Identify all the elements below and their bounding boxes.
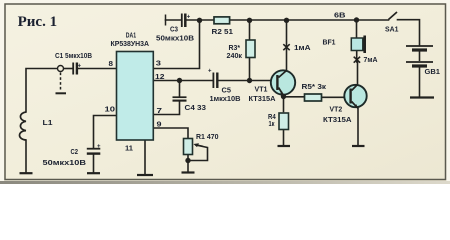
wire C4 bottom to pin7 bbox=[154, 102, 180, 115]
svg-text:11: 11 bbox=[125, 143, 133, 152]
svg-text:8: 8 bbox=[109, 59, 114, 68]
svg-text:С1 5мкх10В: С1 5мкх10В bbox=[55, 51, 92, 60]
transistor VT1 bbox=[271, 70, 295, 96]
resistor R3 bbox=[246, 40, 255, 58]
wire L1 to ground bbox=[25, 140, 27, 173]
wire top bus C3 left lead bbox=[166, 19, 182, 21]
svg-text:+: + bbox=[208, 68, 212, 74]
svg-text:6В: 6В bbox=[334, 11, 346, 20]
label SA1 bbox=[385, 25, 399, 34]
wire C3 to R2 bbox=[187, 19, 215, 21]
current mark 7mA bbox=[354, 57, 360, 63]
border frame bbox=[5, 4, 446, 180]
svg-text:50мкх10В: 50мкх10В bbox=[43, 158, 87, 167]
caption Рис. 1 bbox=[18, 14, 58, 30]
wire node to L1 bbox=[26, 69, 58, 113]
svg-text:КТ315А: КТ315А bbox=[323, 115, 352, 124]
ground R1 bbox=[182, 171, 195, 173]
svg-text:R2 51: R2 51 bbox=[212, 27, 234, 36]
wire pin12 run left bbox=[154, 80, 214, 82]
label pin7 bbox=[157, 106, 163, 115]
photo outer margin bbox=[0, 0, 450, 181]
junction node R3 top bbox=[247, 18, 252, 23]
label R1 bbox=[196, 132, 219, 141]
label C5 bbox=[222, 86, 232, 95]
junction node C4 bbox=[177, 78, 182, 83]
svg-text:9: 9 bbox=[157, 120, 162, 129]
resistor R1 (trimmer) bbox=[184, 139, 204, 155]
label R4 bbox=[268, 112, 276, 121]
wire R2 to SA1 bbox=[230, 19, 389, 21]
label pin11 bbox=[125, 143, 133, 152]
label C5 value bbox=[210, 94, 241, 103]
wire R1 wiper loop bbox=[188, 145, 208, 161]
wire VT2 emitter down bbox=[357, 109, 359, 146]
junction node top C3 bbox=[197, 18, 202, 23]
wire pin11 bbox=[144, 141, 146, 175]
wire R5 to VT2 base bbox=[322, 96, 350, 98]
sounder BF1 bbox=[351, 36, 366, 54]
label VT1 type bbox=[249, 94, 276, 103]
wire R1 bottom bbox=[187, 155, 189, 173]
svg-text:SA1: SA1 bbox=[385, 25, 399, 34]
capacitor C5 bbox=[208, 68, 217, 88]
op-amp DA1 КР538УН3А bbox=[117, 52, 154, 141]
label GB1 bbox=[425, 67, 441, 76]
svg-text:VT1: VT1 bbox=[255, 85, 268, 94]
svg-text:7: 7 bbox=[157, 106, 163, 115]
label R2 bbox=[212, 27, 234, 36]
wire battery bottom to ground bbox=[419, 67, 421, 97]
inductor L1 bbox=[20, 112, 27, 140]
junction node VT1 emitter bbox=[281, 94, 286, 99]
svg-text:50мкх10В: 50мкх10В bbox=[156, 33, 194, 42]
ground GB1 bbox=[410, 96, 434, 98]
label pin9 bbox=[157, 120, 162, 129]
wire C5 to VT1 base bbox=[219, 80, 277, 82]
label pin3 bbox=[156, 58, 161, 67]
wire C2 to ground bbox=[93, 155, 95, 173]
resistor R4 bbox=[279, 113, 289, 130]
label C4 bbox=[185, 103, 207, 112]
wire 1mA branch bbox=[286, 21, 288, 71]
node X1 pickup circle bbox=[56, 66, 67, 94]
svg-text:R5* 3к: R5* 3к bbox=[302, 82, 327, 91]
wire emitter node to R5 bbox=[284, 96, 305, 98]
junction node BF1 top bbox=[354, 17, 359, 22]
label VT1 bbox=[255, 85, 268, 94]
switch SA1 bbox=[389, 12, 398, 20]
capacitor C3 bbox=[166, 14, 191, 28]
label R5 bbox=[302, 82, 327, 91]
svg-text:BF1: BF1 bbox=[323, 37, 336, 46]
wire C1 to node bbox=[64, 68, 73, 70]
svg-text:С4 33: С4 33 bbox=[185, 103, 207, 112]
ground pin11 bbox=[137, 174, 153, 176]
battery GB1 bbox=[406, 46, 433, 66]
svg-text:R1 470: R1 470 bbox=[196, 132, 219, 141]
label R4 value bbox=[269, 119, 275, 128]
svg-text:+: + bbox=[78, 64, 82, 70]
wire BF1 to VT2 collector bbox=[356, 51, 359, 85]
wire R4 to ground bbox=[283, 130, 285, 146]
wire pin3 riser bbox=[154, 21, 200, 69]
label VT2 type bbox=[323, 115, 352, 124]
wire R3 branch top bbox=[249, 21, 251, 41]
junction node R1 wiper bbox=[185, 158, 190, 163]
resistor R5 bbox=[305, 94, 322, 101]
label 6V bbox=[334, 11, 346, 20]
svg-text:1мА: 1мА bbox=[294, 43, 311, 52]
capacitor C2 bbox=[87, 144, 101, 154]
label КР538УН3А bbox=[111, 39, 150, 48]
wire C4 riser bbox=[179, 81, 181, 97]
label L1 bbox=[43, 118, 53, 127]
label VT2 bbox=[330, 104, 343, 113]
label DA1 bbox=[126, 32, 136, 39]
wire pin9 to R1 bbox=[154, 128, 189, 139]
label C1 bbox=[55, 51, 92, 60]
ground C2 bbox=[87, 172, 100, 174]
capacitor C4 bbox=[173, 97, 187, 100]
label C3 bbox=[170, 25, 178, 34]
wire R3 branch bottom bbox=[249, 58, 251, 81]
junction node 1mA top bbox=[284, 18, 289, 23]
label pin10 bbox=[105, 105, 116, 114]
svg-text:3: 3 bbox=[156, 58, 161, 67]
svg-text:С2: С2 bbox=[71, 147, 79, 156]
svg-text:240к: 240к bbox=[227, 51, 243, 60]
ground L1 bbox=[20, 172, 33, 174]
svg-text:1мкх10В: 1мкх10В bbox=[210, 94, 241, 103]
svg-text:Рис. 1: Рис. 1 bbox=[18, 14, 58, 30]
svg-text:1к: 1к bbox=[269, 119, 275, 128]
svg-text:С3: С3 bbox=[170, 25, 178, 34]
wire SA1 right to battery corner bbox=[398, 20, 420, 46]
svg-text:+: + bbox=[97, 144, 101, 150]
label C2 value bbox=[43, 158, 87, 167]
svg-text:12: 12 bbox=[155, 72, 165, 81]
photo background bbox=[0, 0, 450, 184]
label C3 value bbox=[156, 33, 194, 42]
svg-text:10: 10 bbox=[105, 105, 116, 114]
current mark 1mA bbox=[283, 44, 289, 50]
svg-text:GB1: GB1 bbox=[425, 67, 441, 76]
resistor R2 bbox=[214, 17, 230, 24]
svg-text:7мА: 7мА bbox=[364, 55, 379, 64]
label pin8 bbox=[109, 59, 114, 68]
label R3 bbox=[229, 43, 241, 52]
svg-text:L1: L1 bbox=[43, 118, 53, 127]
wire pin8 to C1 bbox=[79, 68, 116, 70]
wire pin10 to C2 bbox=[94, 116, 116, 148]
label 7mA bbox=[364, 55, 379, 64]
label BF1 bbox=[323, 37, 336, 46]
wire VT1 emitter node to R4 bbox=[283, 97, 285, 112]
wire BF1 branch top bbox=[356, 20, 358, 38]
label 1mA bbox=[294, 43, 311, 52]
capacitor C1 bbox=[73, 63, 81, 75]
label pin12 bbox=[155, 72, 165, 81]
svg-text:КР538УН3А: КР538УН3А bbox=[111, 39, 150, 48]
svg-text:VT2: VT2 bbox=[330, 104, 343, 113]
label R3 value bbox=[227, 51, 243, 60]
ground VT2 bbox=[352, 145, 365, 147]
svg-text:КТ315А: КТ315А bbox=[249, 94, 276, 103]
ground R4 bbox=[278, 145, 291, 147]
svg-text:+: + bbox=[187, 15, 191, 21]
label C2 bbox=[71, 147, 79, 156]
junction node R3 bottom bbox=[247, 78, 252, 83]
transistor VT2 bbox=[344, 85, 366, 109]
